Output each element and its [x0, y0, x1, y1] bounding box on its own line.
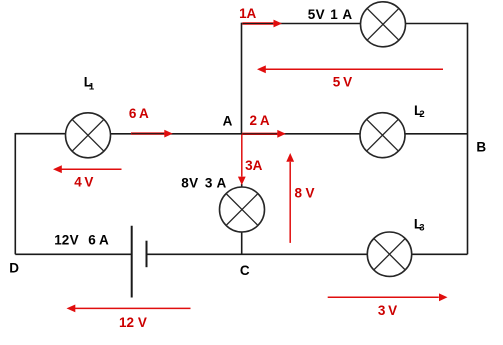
svg-text:V: V — [138, 315, 147, 330]
svg-text:B: B — [476, 139, 486, 154]
label 3 V — [378, 303, 397, 318]
wire middle row: left edge to L1 — [15, 133, 65, 135]
svg-text:3: 3 — [205, 176, 213, 191]
svg-text:6: 6 — [88, 233, 96, 248]
label 4 V — [74, 175, 93, 190]
current arrow 6A (on middle wire) — [131, 130, 173, 138]
lamp L2 — [360, 113, 405, 158]
current arrow 2A (on middle wire) — [242, 130, 286, 138]
svg-text:2: 2 — [419, 109, 424, 120]
voltage arrow 5V (points left) — [257, 65, 443, 73]
battery 12V (short plate) — [146, 241, 148, 268]
label 3A — [245, 158, 263, 173]
svg-text:V: V — [84, 175, 93, 190]
svg-text:3: 3 — [378, 303, 386, 318]
svg-text:12: 12 — [119, 315, 134, 330]
svg-text:A: A — [342, 7, 352, 22]
svg-text:4: 4 — [74, 175, 82, 190]
wire stub below middle lamp to node C — [241, 232, 243, 254]
svg-text:V: V — [306, 185, 315, 200]
label L3 — [414, 216, 425, 233]
wire middle row: L1 to L2 — [110, 133, 360, 135]
svg-text:V: V — [70, 233, 79, 248]
label L2 — [414, 103, 425, 120]
svg-text:V: V — [316, 7, 325, 22]
svg-text:V: V — [343, 75, 352, 90]
svg-text:6: 6 — [129, 106, 137, 121]
wire stub above middle lamp — [241, 184, 243, 187]
lamp L3 — [367, 232, 411, 276]
wire top horizontal right segment — [405, 23, 467, 25]
svg-text:A: A — [139, 106, 149, 121]
label 8 V 3 A — [181, 176, 226, 191]
label L1 — [84, 75, 95, 93]
wire right vertical (top row to B to bottom row) — [467, 23, 469, 255]
label 12 V — [119, 315, 147, 330]
svg-text:V: V — [388, 303, 397, 318]
svg-text:C: C — [240, 263, 250, 278]
voltage arrow 8V (points up) — [286, 153, 294, 243]
battery 12V (long plate) — [131, 226, 133, 298]
svg-text:A: A — [223, 113, 233, 128]
label 1A — [239, 6, 256, 21]
wire top horizontal left segment — [242, 23, 361, 25]
label 6 A — [129, 106, 149, 121]
svg-text:5: 5 — [333, 75, 341, 90]
svg-text:2: 2 — [250, 113, 258, 128]
svg-text:8: 8 — [294, 185, 302, 200]
svg-text:8: 8 — [181, 176, 189, 191]
wire left vertical (L1 row down to D) — [14, 133, 16, 254]
label 2 A — [250, 113, 270, 128]
svg-text:A: A — [216, 176, 226, 191]
lamp 8V 3A (middle) — [220, 187, 265, 232]
wire bottom row: D to battery — [15, 253, 131, 255]
current arrow 1A (on top wire) — [243, 20, 283, 28]
voltage arrow 3V (points right) — [328, 293, 448, 301]
label 5 V 1 A — [308, 7, 353, 22]
svg-text:A: A — [260, 113, 270, 128]
label 5 V — [333, 75, 352, 90]
wire bottom row: L3 to right edge — [412, 253, 468, 255]
current arrow 3A (points down to middle lamp) — [238, 135, 246, 186]
label 8 V — [294, 185, 314, 200]
svg-text:V: V — [189, 176, 198, 191]
wire bottom row: battery to L3 — [147, 253, 368, 255]
svg-text:3: 3 — [419, 222, 424, 233]
label 12 V 6 A — [54, 233, 109, 248]
svg-text:A: A — [99, 233, 109, 248]
svg-text:A: A — [253, 158, 263, 173]
svg-text:A: A — [247, 6, 257, 21]
lamp L1 — [66, 113, 111, 158]
svg-text:D: D — [9, 261, 19, 276]
lamp 5V 1A (top) — [361, 2, 406, 47]
voltage arrow 4V (points left) — [53, 165, 122, 173]
svg-text:1: 1 — [89, 81, 95, 92]
svg-text:12: 12 — [54, 233, 69, 248]
svg-text:1: 1 — [330, 7, 338, 22]
wire middle row: L2 to B — [405, 133, 468, 135]
wire vertical from node A up to top row — [241, 23, 243, 134]
voltage arrow 12V (points left) — [67, 305, 191, 313]
svg-text:5: 5 — [308, 7, 316, 22]
